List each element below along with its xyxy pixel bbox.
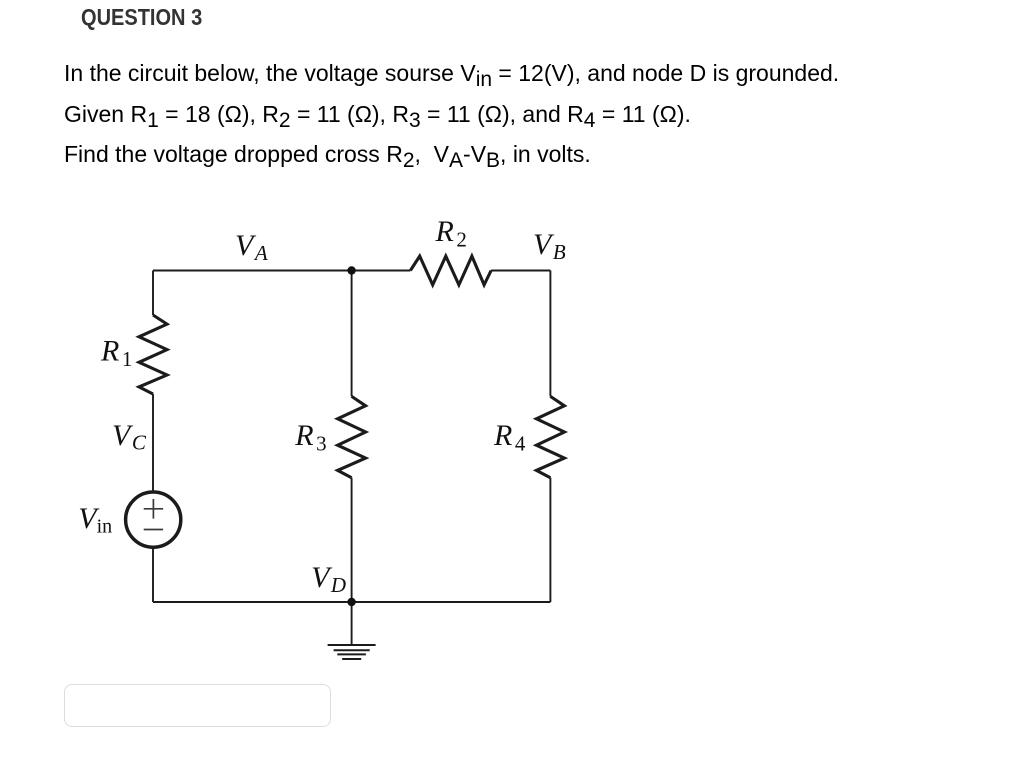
svg-text:VD: VD bbox=[311, 561, 346, 597]
problem text line 2 bbox=[64, 103, 691, 126]
heading QUESTION 3 bbox=[81, 4, 202, 31]
wire top rail right segment after R2 bbox=[491, 270, 550, 272]
svg-text:VA: VA bbox=[235, 229, 268, 265]
svg-text:R4: R4 bbox=[493, 419, 526, 455]
svg-text:R1: R1 bbox=[100, 335, 132, 371]
wire ground stem bbox=[351, 602, 353, 645]
wire right rail top (VB to R4) bbox=[549, 271, 551, 397]
wire middle rail top (node A to R3) bbox=[351, 271, 353, 397]
wire top rail left segment (node A area) bbox=[153, 270, 410, 272]
svg-text:VC: VC bbox=[112, 419, 147, 455]
problem text line 3 bbox=[64, 143, 591, 166]
wire left rail top (to R1) bbox=[152, 271, 154, 316]
answer input box bbox=[64, 684, 331, 727]
ground bar 1 bbox=[328, 644, 376, 646]
resistor R2 zigzag bbox=[410, 256, 491, 285]
ground bar 2 bbox=[334, 649, 370, 651]
voltage source V_in circle bbox=[126, 492, 181, 547]
voltage source minus sign bbox=[144, 529, 163, 531]
wire left rail below source bbox=[152, 548, 154, 602]
wire right rail below R4 bbox=[549, 478, 551, 602]
svg-text:R2: R2 bbox=[435, 215, 467, 251]
svg-text:R3: R3 bbox=[294, 419, 326, 455]
voltage source plus sign bbox=[144, 499, 163, 519]
node D junction dot bbox=[347, 598, 355, 606]
problem text line 1 bbox=[64, 62, 839, 85]
resistor R4 zigzag bbox=[536, 396, 564, 477]
wire left rail between R1 and source bbox=[152, 394, 154, 491]
node A junction dot bbox=[347, 266, 355, 274]
ground bar 3 bbox=[337, 653, 366, 655]
svg-text:Vin: Vin bbox=[78, 502, 112, 538]
wire middle rail below R3 bbox=[351, 478, 353, 602]
resistor R1 zigzag bbox=[139, 315, 167, 394]
wire bottom rail bbox=[153, 601, 550, 603]
resistor R3 zigzag bbox=[338, 396, 366, 477]
ground bar 4 bbox=[342, 658, 361, 660]
svg-text:VB: VB bbox=[533, 228, 566, 264]
